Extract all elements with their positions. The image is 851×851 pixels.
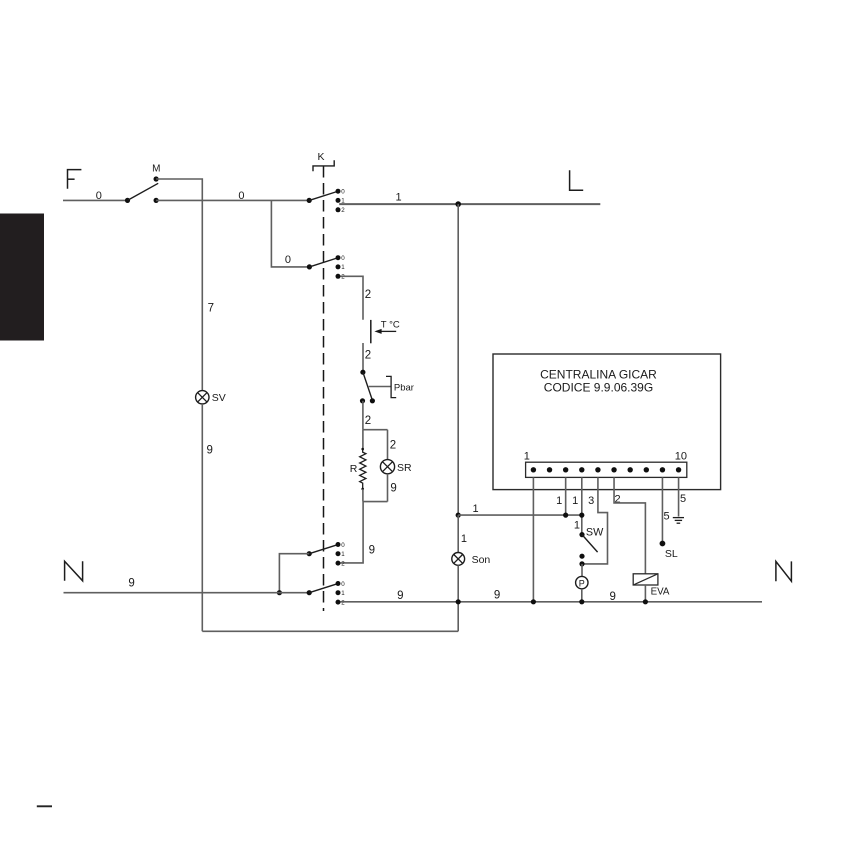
svg-text:1: 1 xyxy=(574,520,580,532)
svg-text:SW: SW xyxy=(586,527,604,539)
svg-text:SL: SL xyxy=(665,548,678,560)
node junction on L wire xyxy=(455,201,461,207)
switch SW loop dot xyxy=(579,561,584,566)
svg-text:2: 2 xyxy=(365,415,371,427)
wire SR branch bottom xyxy=(387,474,389,502)
switch K bank1 (0-1-2) xyxy=(307,198,312,203)
wire SW to pump P xyxy=(581,564,583,577)
wire 1 horizontal xyxy=(458,514,582,516)
svg-text:EVA: EVA xyxy=(651,586,670,597)
ground symbol xyxy=(673,517,684,519)
svg-text:2: 2 xyxy=(341,599,345,606)
node pin1-N junction xyxy=(531,599,536,604)
svg-text:1: 1 xyxy=(473,503,479,515)
switch M common dot xyxy=(125,198,130,203)
svg-text:0: 0 xyxy=(341,581,345,588)
svg-text:10: 10 xyxy=(675,451,687,463)
wire Son to N xyxy=(457,565,459,602)
svg-text:9: 9 xyxy=(609,591,615,603)
svg-text:5: 5 xyxy=(680,493,686,505)
switch Pbar bottom-left dot xyxy=(360,398,365,403)
lamp Son xyxy=(452,553,465,566)
svg-text:Son: Son xyxy=(472,554,491,566)
svg-text:CENTRALINA GICAR: CENTRALINA GICAR xyxy=(540,367,657,381)
wire SV to bottom loop xyxy=(201,404,203,631)
svg-text:0: 0 xyxy=(341,255,345,262)
wire split bottom xyxy=(363,501,388,503)
svg-text:2: 2 xyxy=(365,349,371,361)
svg-text:9: 9 xyxy=(390,483,396,495)
terminal pins 1-10 xyxy=(531,467,536,472)
switch M blade xyxy=(128,183,159,200)
label N (neutral, right) xyxy=(776,561,792,581)
svg-text:9: 9 xyxy=(369,544,375,556)
switch SW bottom contact dot xyxy=(579,554,584,559)
svg-text:0: 0 xyxy=(341,542,345,549)
wire pin9 to SL xyxy=(661,477,663,543)
svg-text:5: 5 xyxy=(664,510,670,522)
svg-text:R: R xyxy=(350,463,358,475)
K actuator dashed line xyxy=(323,166,325,611)
svg-text:1: 1 xyxy=(556,495,562,507)
svg-text:9: 9 xyxy=(206,445,212,457)
wire F to switch M xyxy=(63,199,128,201)
svg-text:2: 2 xyxy=(341,207,345,214)
svg-text:1: 1 xyxy=(572,495,578,507)
label N (neutral, left) xyxy=(65,561,83,581)
switch K bank4 (0-1-2) xyxy=(307,590,312,595)
wire Pbar to R-SR split xyxy=(362,401,364,430)
Pbar bracket xyxy=(386,376,396,397)
wire pin4 to SW xyxy=(581,477,583,534)
switch K bank2 (0-1-2) xyxy=(307,264,312,269)
svg-text:2: 2 xyxy=(341,274,345,281)
svg-text:1: 1 xyxy=(524,451,530,463)
wire split top xyxy=(363,429,388,431)
svg-text:9: 9 xyxy=(128,578,134,590)
switch M lower contact dot xyxy=(154,198,159,203)
svg-text:K: K xyxy=(317,151,324,163)
wire pin6 jog to EVA xyxy=(614,477,645,573)
pump P xyxy=(576,576,588,588)
wire P to N xyxy=(581,589,583,602)
svg-text:2: 2 xyxy=(341,560,345,567)
node pin3 junction xyxy=(563,513,568,518)
K actuator bracket xyxy=(313,160,334,171)
wire N left xyxy=(64,592,310,594)
svg-text:9: 9 xyxy=(397,590,403,602)
switch K bank3 (0-1-2) xyxy=(307,551,312,556)
wire pin1 to N xyxy=(532,477,534,601)
switch Pbar bottom-right dot xyxy=(370,398,375,403)
svg-text:SV: SV xyxy=(212,392,226,404)
svg-text:P: P xyxy=(579,578,585,588)
svg-text:M: M xyxy=(152,163,160,174)
svg-text:0: 0 xyxy=(341,189,345,196)
switch M upper contact dot xyxy=(154,176,159,181)
svg-text:3: 3 xyxy=(588,495,594,507)
wire chain down to K bank3 xyxy=(340,502,363,563)
svg-text:1: 1 xyxy=(341,590,345,597)
wire node to lamp Son xyxy=(457,515,459,553)
label L (line) xyxy=(570,170,584,190)
svg-text:0: 0 xyxy=(96,190,102,202)
wire bottom loop up to N junction xyxy=(457,602,459,632)
Pbar actuator line xyxy=(369,386,391,388)
page dash bottom-left xyxy=(37,805,52,807)
wire branch down to K bank2 xyxy=(271,201,309,267)
thermostat arrow xyxy=(381,330,397,332)
switch SW blade xyxy=(582,535,598,553)
node pin4 junction xyxy=(579,513,584,518)
switch SW top dot xyxy=(579,532,584,537)
wire M upper contact to SV branch xyxy=(156,179,202,391)
lamp SR xyxy=(380,460,394,474)
wire L junction down to node 1 xyxy=(457,204,459,515)
switch Pbar blade xyxy=(363,372,373,400)
wire SR branch top xyxy=(387,430,389,460)
solenoid EVA xyxy=(633,574,658,585)
wire pin10 to ground xyxy=(678,477,680,516)
switch Pbar top dot xyxy=(360,370,365,375)
wire N right from K bank4 contact2 xyxy=(340,601,762,603)
terminal SL dot xyxy=(660,541,666,547)
svg-text:7: 7 xyxy=(208,303,214,315)
svg-text:9: 9 xyxy=(494,589,500,601)
wire K bank3 common left xyxy=(279,554,309,593)
lamp SV xyxy=(196,391,209,404)
svg-text:CODICE 9.9.06.39G: CODICE 9.9.06.39G xyxy=(544,381,653,395)
wire bottom loop horizontal xyxy=(202,630,458,632)
wire pin3 to node1 xyxy=(565,477,567,515)
svg-text:Pbar: Pbar xyxy=(394,382,414,393)
thermostat T C contact bar xyxy=(370,320,372,343)
wire L from K bank1 contact1 xyxy=(339,203,600,205)
svg-text:1: 1 xyxy=(461,533,467,545)
svg-text:1: 1 xyxy=(341,264,345,271)
black redaction bar left margin xyxy=(0,214,44,341)
node EVA-N junction xyxy=(643,599,648,604)
svg-text:2: 2 xyxy=(390,439,396,451)
node P-N junction xyxy=(579,599,584,604)
control unit box xyxy=(493,354,721,490)
svg-text:1: 1 xyxy=(396,191,402,203)
wire R branch bottom xyxy=(362,489,364,502)
wire pin5 loop to SW bottom xyxy=(582,477,608,564)
svg-text:SR: SR xyxy=(397,462,412,474)
svg-text:2: 2 xyxy=(365,289,371,301)
node Son-N junction xyxy=(456,599,461,604)
wire M lower contact to K common xyxy=(156,199,309,201)
wire thermostat to Pbar xyxy=(362,343,364,372)
terminal strip xyxy=(526,462,687,477)
wire R branch top xyxy=(362,430,364,450)
label F (phase) xyxy=(68,170,82,189)
svg-text:1: 1 xyxy=(341,551,345,558)
wire EVA to N xyxy=(644,585,646,602)
svg-text:0: 0 xyxy=(238,190,244,202)
svg-text:0: 0 xyxy=(285,254,291,266)
node junction wire-1 xyxy=(456,513,461,518)
wire K bank2 contact2 to chain xyxy=(340,276,363,319)
resistor R xyxy=(360,449,366,489)
svg-text:T °C: T °C xyxy=(381,320,400,331)
node junction on N wire xyxy=(277,590,282,595)
